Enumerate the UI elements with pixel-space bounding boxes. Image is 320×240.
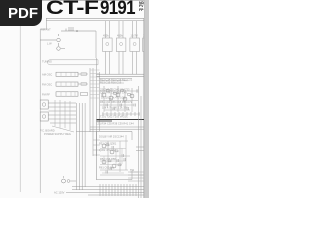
svg-text:455k: 455k [103, 34, 109, 38]
svg-text:R52 C55 R58: R52 C55 R58 [100, 157, 116, 161]
wire mesh verticals [55, 100, 70, 130]
output stage bottom border [97, 170, 133, 180]
switch bank S1-3 [56, 92, 78, 96]
svg-text:P.C. BOARD: P.C. BOARD [40, 129, 55, 133]
resistor R11 [81, 93, 88, 96]
capacitor C24 [106, 104, 135, 111]
relay connector cluster [62, 179, 66, 183]
svg-text:T201 T202 T203 VR201: T201 T202 T203 VR201 [100, 115, 128, 119]
svg-text:R13 C15 R16 C19: R13 C15 R16 C19 [100, 81, 122, 85]
sheet border top double line [46, 17, 144, 19]
sheet border right [143, 18, 145, 198]
switch bank S1-1 [56, 72, 78, 76]
bottom right mesh [128, 172, 149, 181]
wire right edge verticals [139, 86, 147, 198]
sheet border left [40, 18, 46, 193]
resistor R53 [115, 150, 118, 152]
transistor Q8 [123, 97, 127, 101]
svg-text:Q302 470 C54: Q302 470 C54 [99, 148, 116, 152]
title version letters [139, 2, 144, 12]
svg-text:455k: 455k [117, 34, 123, 38]
connector CN1 [40, 100, 48, 109]
transistor Q17 [102, 160, 106, 164]
wire bundle tape transport [76, 103, 85, 190]
resistor R8 [81, 73, 87, 76]
svg-text:R61 C64 R65 C68 R69 C72: R61 C64 R65 C68 R69 C72 [100, 100, 133, 104]
svg-text:POWER SUPPLY REG: POWER SUPPLY REG [44, 132, 71, 136]
svg-text:L.W: L.W [47, 42, 52, 46]
ground bus heavy line [97, 119, 145, 121]
resistor R52 [106, 144, 109, 146]
IF board bus wires [97, 74, 144, 76]
svg-text:1k 220 3.3k 470 100k: 1k 220 3.3k 470 100k [101, 96, 127, 100]
connector pin hatch [100, 184, 136, 196]
capacitor C58 [106, 158, 125, 174]
node A [76, 30, 78, 32]
svg-text:TUNING: TUNING [42, 60, 52, 64]
IF transformer T4 [143, 38, 149, 52]
wire bundle mid verticals [90, 58, 100, 156]
dial cord loop [47, 60, 98, 65]
resistor R22 [114, 93, 117, 95]
transistor Q16 [110, 150, 114, 154]
svg-text:10k 4.7k 100 2.2k 330: 10k 4.7k 100 2.2k 330 [102, 106, 128, 110]
svg-text:AM OSC: AM OSC [42, 73, 52, 77]
wire mesh horizontals [49, 103, 77, 123]
schematic drawing [0, 0, 149, 198]
output stage inner wires [100, 149, 126, 174]
ground bus heavy segment [97, 120, 113, 122]
resistor R54 [108, 160, 111, 162]
page left fold line [19, 26, 21, 192]
transistor Q2 [57, 47, 61, 51]
svg-text:FM OSC: FM OSC [42, 83, 52, 87]
svg-text:R61 C62 10k: R61 C62 10k [99, 166, 115, 170]
wire AM antenna input [40, 39, 56, 41]
capacitor C1 [68, 28, 74, 30]
transistor Q18 [112, 164, 116, 168]
output stage wires [100, 141, 130, 175]
IF transformer T1 [103, 38, 113, 52]
wire down from FM bus [95, 31, 97, 58]
tiny schematic annotation text [40, 28, 149, 195]
IF transformer T3 [130, 38, 140, 52]
transistor Q15 [102, 144, 106, 148]
svg-text:AC 120V: AC 120V [54, 191, 65, 195]
transistor Q5 [102, 93, 106, 97]
IF transformer T2 [116, 38, 126, 52]
resistor network wires [100, 91, 138, 110]
svg-text:DOLBY NR 2SC1344: DOLBY NR 2SC1344 [99, 135, 124, 139]
svg-text:10.7M: 10.7M [131, 34, 138, 38]
wire FM antenna bus [61, 29, 96, 32]
capacitor row C21 [102, 113, 140, 115]
svg-text:R51 C51 Q301: R51 C51 Q301 [99, 142, 117, 146]
transistor Q7 [116, 93, 120, 97]
svg-text:AM ANT: AM ANT [41, 28, 51, 32]
PDF badge [0, 0, 42, 26]
output stage board box [97, 132, 133, 181]
capacitor C25 [101, 90, 139, 101]
wire diagonal [52, 126, 74, 132]
bottom bus wires [66, 186, 149, 195]
resistor R9 [81, 83, 87, 86]
switch bank S1-2 [56, 82, 78, 86]
wire rows below ground bus [90, 127, 149, 129]
transistor Q9 [130, 94, 134, 98]
svg-text:C31 R34 C35 R38 C39 R41 C44: C31 R34 C35 R38 C39 R41 C44 [96, 122, 134, 126]
wire right column taps [93, 140, 100, 155]
svg-text:C41 R44 C45 R48 C49: C41 R44 C45 R48 C49 [100, 91, 127, 95]
page top edge line [0, 0, 149, 2]
resistor R23 [121, 90, 124, 92]
resistor R55 [118, 164, 121, 166]
transistor Q6 [109, 96, 113, 100]
wire right taps [136, 147, 144, 151]
transistor Q1 [57, 38, 61, 42]
svg-text:TW: TW [130, 168, 135, 172]
capacitor C52 [110, 146, 123, 170]
connector CN2 [40, 112, 48, 121]
page right edge shadow [144, 0, 149, 198]
svg-text:FM RF: FM RF [42, 93, 50, 97]
resistor R24 [128, 94, 131, 96]
resistor R21 [107, 90, 110, 92]
title CT-F9191 [46, 0, 139, 20]
wire ladder rungs [90, 70, 100, 98]
